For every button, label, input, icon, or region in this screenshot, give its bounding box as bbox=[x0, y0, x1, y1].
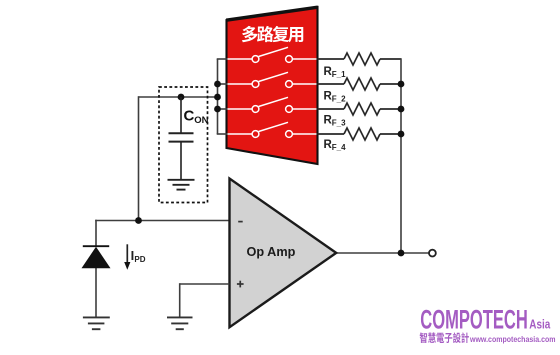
junction on mux bus (S2 row) bbox=[214, 81, 221, 88]
wire: stub to switch S3 input bbox=[217, 108, 228, 110]
junction: inverting input node bbox=[135, 217, 142, 224]
wire: photodiode to inverting input bbox=[95, 220, 229, 222]
wire: stub to switch S4 input bbox=[217, 133, 228, 135]
output terminal bbox=[429, 250, 436, 257]
switch S4 bbox=[228, 122, 317, 137]
junction on feedback bus (RF_2) bbox=[398, 81, 405, 88]
switch S2 bbox=[228, 72, 317, 87]
wire: stub to switch S2 input bbox=[217, 83, 228, 85]
svg-text:Asia: Asia bbox=[529, 317, 550, 332]
multiplexer U1 (red trapezoid) bbox=[227, 7, 318, 164]
resistor RF_3 bbox=[318, 103, 402, 115]
capacitor C_ON dashed enclosure bbox=[159, 87, 208, 203]
wire: photodiode cathode bbox=[95, 220, 97, 247]
switch S1 bbox=[228, 47, 317, 62]
svg-text:F_1: F_1 bbox=[332, 70, 346, 79]
wire: stub to switch S1 input bbox=[217, 58, 228, 60]
current arrow I_PD bbox=[126, 244, 128, 263]
logo tagline 智慧電子設計 bbox=[420, 332, 469, 343]
resistor RF_4 bbox=[318, 128, 402, 140]
svg-text:COMPOTECH: COMPOTECH bbox=[420, 305, 528, 335]
svg-text:F_3: F_3 bbox=[332, 119, 346, 128]
junction on feedback bus (RF_3) bbox=[398, 106, 405, 113]
junction on feedback bus (output) bbox=[398, 250, 405, 257]
wire: non-inverting input bbox=[180, 283, 230, 285]
plus sign bbox=[237, 281, 244, 288]
junction on mux bus (S3 row) bbox=[214, 106, 221, 113]
wire: left input bus of multiplexer bbox=[217, 59, 219, 134]
svg-text:F_4: F_4 bbox=[332, 143, 346, 152]
photodiode D1 bbox=[82, 246, 111, 268]
ground (photodiode) bbox=[83, 317, 110, 329]
op-amp U2 bbox=[230, 179, 337, 328]
wire: feedback bus (resistors to output) bbox=[400, 58, 402, 253]
junction on feedback bus (RF_4) bbox=[398, 131, 405, 138]
label 多路复用 (multiplexing) bbox=[242, 26, 303, 42]
svg-text:Op Amp: Op Amp bbox=[247, 245, 296, 259]
svg-text:F_2: F_2 bbox=[332, 94, 346, 103]
junction: C_ON tap bbox=[178, 94, 185, 101]
ground (below C_ON) bbox=[168, 180, 195, 190]
switch S3 bbox=[228, 97, 317, 112]
capacitor C_ON bbox=[169, 97, 194, 180]
wire: summing node branch to mux bus bbox=[139, 96, 218, 98]
svg-text:PD: PD bbox=[134, 255, 145, 264]
wire: op-amp output bbox=[336, 252, 429, 254]
wire: + input down to ground bbox=[179, 283, 181, 317]
resistor RF_2 bbox=[318, 78, 402, 90]
wire: photodiode anode to ground bbox=[95, 268, 97, 317]
svg-text:www.compotechasia.com: www.compotechasia.com bbox=[469, 334, 556, 344]
svg-text:ON: ON bbox=[194, 115, 208, 126]
ground (+ input) bbox=[167, 317, 193, 329]
svg-text:C: C bbox=[184, 108, 195, 125]
junction on mux bus (C_ON branch) bbox=[214, 94, 221, 101]
wire: vertical riser from inverting node bbox=[138, 96, 140, 220]
resistor RF_1 bbox=[318, 53, 402, 65]
minus sign bbox=[238, 221, 243, 223]
